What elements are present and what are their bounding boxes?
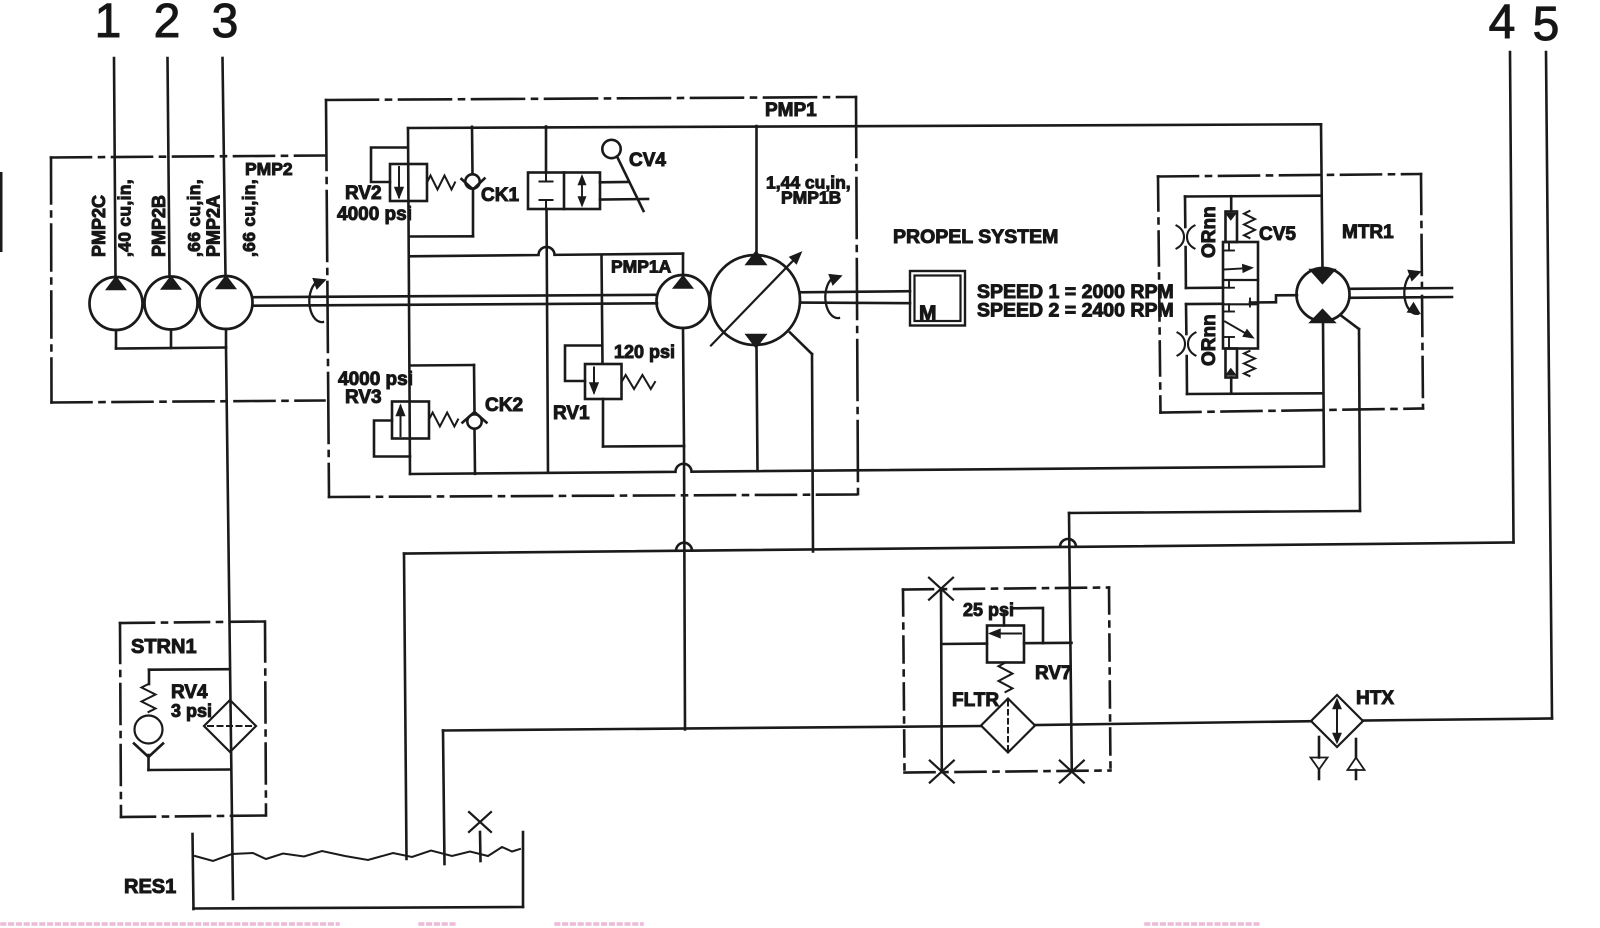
svg-text:1: 1 bbox=[95, 0, 122, 48]
svg-text:PMP2B: PMP2B bbox=[149, 195, 169, 257]
svg-text:PMP1B: PMP1B bbox=[781, 188, 841, 208]
svg-text:,40 cu,in,: ,40 cu,in, bbox=[115, 179, 135, 257]
svg-text:,66 cu,in,: ,66 cu,in, bbox=[239, 179, 259, 257]
svg-text:RV2: RV2 bbox=[345, 183, 382, 204]
svg-text:RV7: RV7 bbox=[1035, 663, 1072, 684]
svg-text:CK2: CK2 bbox=[485, 395, 523, 416]
svg-text:MTR1: MTR1 bbox=[1342, 222, 1394, 243]
svg-text:PROPEL SYSTEM: PROPEL SYSTEM bbox=[893, 226, 1058, 248]
svg-text:SPEED 2 = 2400 RPM: SPEED 2 = 2400 RPM bbox=[977, 300, 1174, 322]
svg-text:PMP2C: PMP2C bbox=[89, 195, 109, 257]
svg-text:2: 2 bbox=[154, 0, 181, 48]
svg-text:PMP2: PMP2 bbox=[245, 159, 293, 179]
svg-text:3 psi: 3 psi bbox=[171, 701, 212, 721]
svg-text:CV5: CV5 bbox=[1259, 224, 1296, 245]
svg-text:ORnn: ORnn bbox=[1199, 314, 1220, 366]
svg-text:M: M bbox=[919, 302, 937, 325]
svg-text:RV1: RV1 bbox=[553, 403, 590, 424]
svg-text:4: 4 bbox=[1489, 0, 1516, 49]
svg-text:120 psi: 120 psi bbox=[614, 342, 675, 362]
svg-text:RV3: RV3 bbox=[345, 387, 382, 408]
svg-text:,66 cu,in,: ,66 cu,in, bbox=[184, 179, 204, 257]
svg-text:CV4: CV4 bbox=[629, 150, 666, 171]
svg-text:5: 5 bbox=[1533, 0, 1560, 51]
svg-text:3: 3 bbox=[212, 0, 239, 48]
svg-text:CK1: CK1 bbox=[481, 185, 519, 206]
svg-text:ORnn: ORnn bbox=[1199, 206, 1220, 258]
svg-text:FLTR: FLTR bbox=[952, 690, 999, 711]
svg-text:4000 psi: 4000 psi bbox=[337, 204, 412, 225]
svg-text:RV4: RV4 bbox=[171, 682, 208, 703]
svg-text:HTX: HTX bbox=[1356, 688, 1394, 709]
svg-text:RES1: RES1 bbox=[124, 876, 176, 898]
svg-text:PMP1: PMP1 bbox=[765, 100, 817, 121]
svg-text:STRN1: STRN1 bbox=[131, 636, 197, 658]
svg-text:PMP1A: PMP1A bbox=[611, 257, 672, 277]
svg-text:PMP2A: PMP2A bbox=[204, 195, 224, 257]
svg-text:25 psi: 25 psi bbox=[963, 600, 1014, 620]
